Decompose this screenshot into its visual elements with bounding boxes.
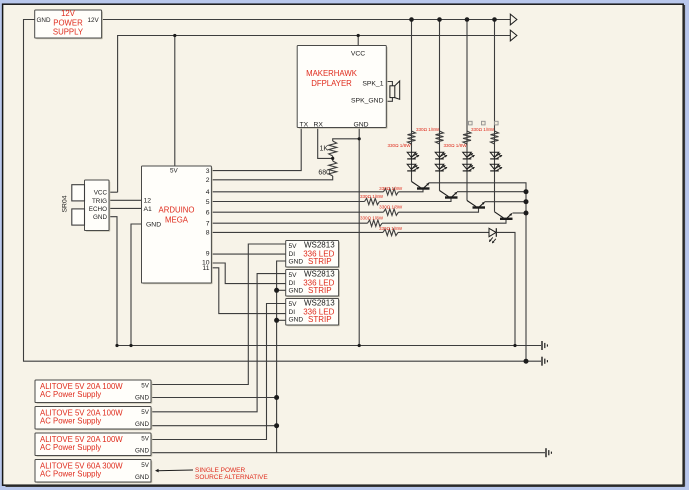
svg-text:3: 3 xyxy=(206,168,210,175)
svg-text:5V: 5V xyxy=(141,436,150,443)
svg-text:6: 6 xyxy=(206,210,210,217)
svg-text:1K: 1K xyxy=(319,146,328,153)
svg-text:12V: 12V xyxy=(61,9,76,18)
svg-text:AC Power Supply: AC Power Supply xyxy=(40,470,101,479)
svg-text:330Ω 1/8W: 330Ω 1/8W xyxy=(443,143,467,148)
svg-text:SPK_1: SPK_1 xyxy=(362,80,383,87)
svg-text:9: 9 xyxy=(206,251,210,258)
svg-text:GND: GND xyxy=(93,214,107,221)
svg-text:5V: 5V xyxy=(289,272,298,279)
svg-text:STRIP: STRIP xyxy=(308,315,332,324)
svg-text:ARDUINO: ARDUINO xyxy=(159,206,195,215)
svg-text:AC Power Supply: AC Power Supply xyxy=(40,417,101,426)
svg-text:330Ω 1/8W: 330Ω 1/8W xyxy=(387,143,411,148)
svg-text:330Ω 1/8W: 330Ω 1/8W xyxy=(379,226,403,231)
svg-text:GND: GND xyxy=(135,421,149,428)
svg-text:GND: GND xyxy=(135,395,149,402)
svg-text:12V: 12V xyxy=(88,17,100,24)
svg-text:680: 680 xyxy=(318,170,330,177)
svg-text:GND: GND xyxy=(289,317,304,324)
svg-text:A1: A1 xyxy=(144,206,153,213)
svg-text:5V: 5V xyxy=(170,168,179,175)
svg-text:TRIG: TRIG xyxy=(92,198,107,205)
svg-text:7: 7 xyxy=(206,221,210,228)
svg-text:SUPPLY: SUPPLY xyxy=(53,28,84,37)
svg-text:5: 5 xyxy=(206,199,210,206)
svg-text:330Ω 1/8W: 330Ω 1/8W xyxy=(379,186,403,191)
svg-text:GND: GND xyxy=(135,474,149,481)
svg-text:4: 4 xyxy=(206,189,210,196)
svg-text:330Ω 1/8W: 330Ω 1/8W xyxy=(379,205,403,210)
svg-text:GND: GND xyxy=(135,448,149,455)
svg-text:GND: GND xyxy=(353,122,368,129)
svg-text:2: 2 xyxy=(206,177,210,184)
svg-text:5V: 5V xyxy=(141,462,150,469)
svg-text:8: 8 xyxy=(206,230,210,237)
svg-text:5V: 5V xyxy=(289,243,298,250)
svg-text:WS2813: WS2813 xyxy=(304,299,335,308)
svg-text:WS2813: WS2813 xyxy=(304,241,335,250)
svg-text:RX: RX xyxy=(314,122,324,129)
svg-text:STRIP: STRIP xyxy=(308,286,332,295)
svg-text:DI: DI xyxy=(289,280,296,287)
svg-text:TX: TX xyxy=(300,122,309,129)
svg-text:330Ω 1/8W: 330Ω 1/8W xyxy=(360,215,384,220)
svg-text:SINGLE POWER: SINGLE POWER xyxy=(195,467,246,474)
svg-text:GND: GND xyxy=(289,288,304,295)
svg-text:5V: 5V xyxy=(141,409,150,416)
svg-text:DI: DI xyxy=(289,251,296,258)
svg-text:SOURCE ALTERNATIVE: SOURCE ALTERNATIVE xyxy=(195,474,268,481)
svg-text:SPK_GND: SPK_GND xyxy=(351,97,384,104)
svg-text:5V: 5V xyxy=(289,301,298,308)
svg-text:330Ω 1/8W: 330Ω 1/8W xyxy=(471,127,495,132)
svg-text:MAKERHAWK: MAKERHAWK xyxy=(306,69,358,78)
svg-text:POWER: POWER xyxy=(53,19,83,28)
svg-text:11: 11 xyxy=(202,265,209,272)
svg-text:GND: GND xyxy=(37,17,51,24)
svg-text:GND: GND xyxy=(146,222,161,229)
svg-text:AC Power Supply: AC Power Supply xyxy=(40,390,101,399)
svg-text:GND: GND xyxy=(289,259,304,266)
svg-text:VCC: VCC xyxy=(351,51,365,58)
svg-text:12: 12 xyxy=(144,198,152,205)
svg-text:WS2813: WS2813 xyxy=(304,270,335,279)
svg-text:AC Power Supply: AC Power Supply xyxy=(40,443,101,452)
svg-text:ECHO: ECHO xyxy=(89,206,107,213)
svg-text:DFPLAYER: DFPLAYER xyxy=(311,79,352,88)
svg-text:DI: DI xyxy=(289,309,296,316)
svg-text:5V: 5V xyxy=(141,383,150,390)
svg-text:MEGA: MEGA xyxy=(165,216,189,225)
svg-text:330Ω 1/8W: 330Ω 1/8W xyxy=(360,194,384,199)
svg-text:VCC: VCC xyxy=(94,190,108,197)
svg-text:STRIP: STRIP xyxy=(308,257,332,266)
svg-text:SR04: SR04 xyxy=(62,195,69,212)
svg-text:330Ω 1/8W: 330Ω 1/8W xyxy=(416,127,440,132)
